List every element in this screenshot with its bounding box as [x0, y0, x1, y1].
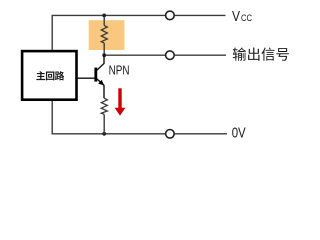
- wire: resistor R1 top lead: [103, 15, 105, 25]
- terminal: Vcc: [166, 11, 175, 20]
- node: junction dot at 0V rail: [102, 132, 106, 136]
- resistor R2 (emitter): [101, 98, 107, 114]
- wire: output signal rail: [104, 54, 226, 56]
- wire: Vcc top rail from box corner to label: [52, 15, 225, 50]
- wire: 0V bottom rail from box bottom to label: [52, 100, 227, 134]
- svg-text:V: V: [232, 8, 240, 25]
- label char 输: [233, 47, 246, 60]
- wire: base lead from main circuit box: [77, 77, 94, 79]
- label char 信: [261, 48, 274, 61]
- svg-text:NPN: NPN: [109, 63, 130, 78]
- current flow arrow (red): [118, 88, 121, 108]
- node: junction dot at Vcc rail: [102, 14, 106, 18]
- svg-text:CC: CC: [241, 12, 252, 23]
- box label char 主: [36, 71, 45, 80]
- label char 号: [276, 48, 289, 61]
- label char 出: [248, 48, 259, 61]
- main circuit box 主回路: [22, 51, 76, 100]
- terminal: output: [166, 51, 175, 60]
- terminal: 0V: [166, 130, 175, 139]
- transistor Q1: collector lead: [97, 55, 104, 70]
- wire: resistor R1 bottom lead to collector node: [103, 43, 105, 55]
- resistor R1 (pull-up, inside highlight): [101, 25, 107, 43]
- box label char 回: [46, 72, 54, 81]
- resistor R1 highlight (orange): [89, 20, 125, 50]
- wire: resistor R2 bottom lead: [103, 114, 105, 133]
- node: junction dot collector/output: [102, 53, 106, 57]
- svg-text:0V: 0V: [232, 124, 246, 141]
- transistor Q1 NPN: base bar: [94, 68, 97, 82]
- box label char 路: [55, 71, 64, 80]
- transistor Q1: emitter lead with arrow: [97, 79, 104, 98]
